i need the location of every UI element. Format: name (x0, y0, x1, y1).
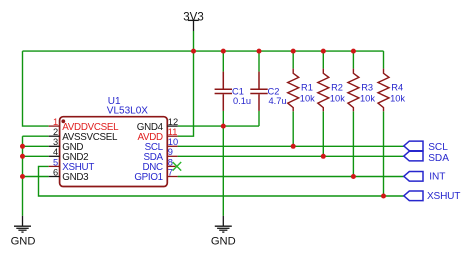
svg-text:R4: R4 (391, 82, 403, 92)
svg-text:INT: INT (429, 171, 445, 182)
svg-text:11: 11 (168, 127, 178, 137)
svg-text:4: 4 (53, 147, 58, 157)
svg-text:R2: R2 (331, 82, 343, 92)
svg-text:10k: 10k (390, 93, 405, 103)
svg-text:2: 2 (53, 127, 58, 137)
svg-text:10: 10 (168, 137, 178, 147)
svg-text:7: 7 (168, 167, 173, 177)
svg-text:0.1u: 0.1u (233, 96, 251, 106)
svg-text:3: 3 (53, 137, 58, 147)
svg-text:GND: GND (211, 235, 236, 247)
svg-text:SDA: SDA (428, 153, 449, 164)
svg-text:4.7u: 4.7u (269, 96, 287, 106)
svg-text:XSHUT: XSHUT (427, 191, 460, 202)
svg-text:12: 12 (168, 117, 178, 127)
svg-text:C1: C1 (232, 86, 244, 96)
svg-text:C2: C2 (268, 86, 280, 96)
svg-text:SCL: SCL (428, 142, 448, 153)
svg-text:6: 6 (53, 167, 58, 177)
svg-text:10k: 10k (330, 93, 345, 103)
svg-text:GND3: GND3 (62, 172, 89, 183)
svg-text:3V3: 3V3 (183, 12, 203, 24)
svg-text:GPIO1: GPIO1 (134, 172, 162, 183)
svg-text:R3: R3 (361, 82, 373, 92)
svg-text:9: 9 (168, 147, 173, 157)
svg-text:10k: 10k (300, 93, 315, 103)
svg-text:1: 1 (53, 117, 58, 127)
svg-text:8: 8 (168, 157, 173, 167)
svg-text:10k: 10k (360, 93, 375, 103)
svg-text:R1: R1 (301, 82, 313, 92)
svg-text:VL53L0X: VL53L0X (107, 106, 148, 117)
svg-text:5: 5 (53, 157, 58, 167)
svg-text:GND: GND (11, 235, 36, 247)
